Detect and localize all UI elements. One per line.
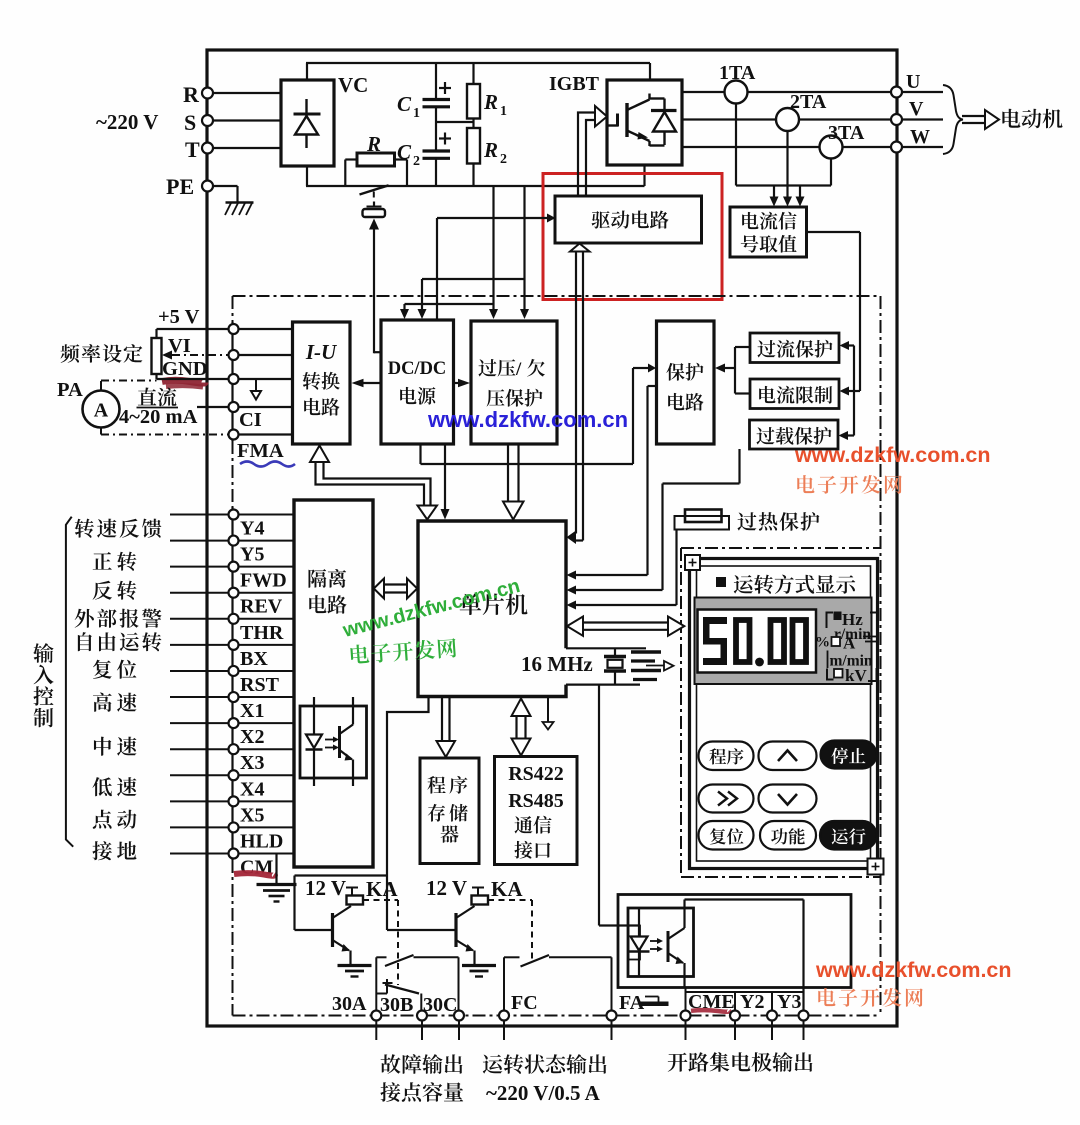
blue wavy mark under FMA — [240, 462, 295, 467]
svg-text:PE: PE — [166, 174, 194, 199]
terminal REV circle — [229, 588, 239, 598]
wire positive DC bus rail — [306, 62, 650, 64]
node S input terminal line — [212, 119, 281, 121]
block over/under voltage protection 过压/欠压保护 — [471, 321, 557, 444]
LED of output opto — [638, 909, 640, 937]
terminal 30A circle — [371, 1011, 381, 1021]
svg-text:www.dzkfw.com.cn: www.dzkfw.com.cn — [427, 407, 628, 432]
ground arrow symbol below GND line — [255, 379, 257, 391]
svg-text:~220 V: ~220 V — [96, 110, 158, 134]
terminal S circle — [202, 115, 213, 126]
terminal open collector 4th circle — [799, 1011, 809, 1021]
label 复位 — [93, 660, 112, 679]
block overload protection 过载保护 — [750, 420, 839, 449]
node PE terminal line — [213, 185, 238, 187]
brace grouping U V W outputs — [943, 85, 963, 154]
terminal T circle — [202, 143, 213, 154]
button 程序 — [699, 742, 754, 771]
block overcurrent protection 过流保护 — [750, 333, 839, 363]
phototransistor of output opto — [667, 931, 670, 962]
arrow into drive circuit left — [547, 214, 556, 223]
wire 4th lead out — [803, 1021, 805, 1041]
block isolation circuit 隔离电路 — [294, 500, 373, 867]
terminal HLD circle — [229, 822, 239, 832]
button up arrow — [759, 742, 817, 771]
wire 30C lead out — [458, 1021, 460, 1041]
svg-text:GND: GND — [162, 358, 208, 380]
arrow into over/under voltage box A — [489, 309, 498, 319]
arrow small right from crystal caps — [646, 665, 664, 667]
terminal W circle on border — [891, 142, 902, 153]
wire rail branch B to protection supplies — [523, 186, 525, 310]
arrow into overload protection right — [848, 434, 854, 436]
wire dash-dot control boundary top — [233, 295, 881, 297]
arrow into overcurrent protection right — [849, 344, 854, 346]
svg-text:X5: X5 — [240, 804, 264, 826]
svg-text:Y4: Y4 — [240, 518, 264, 540]
svg-text:CI: CI — [239, 409, 262, 431]
wire U output line — [682, 91, 943, 93]
svg-text:RST: RST — [240, 674, 280, 696]
red mark under GND — [162, 380, 205, 383]
svg-text:2TA: 2TA — [790, 91, 827, 113]
wire C2 bottom to negative rail — [435, 159, 437, 187]
display 50.00 seven segment readout — [703, 617, 727, 624]
wire braking resistor right lead — [395, 158, 408, 160]
arrow stub down from MCU bottom — [547, 697, 549, 723]
arrow open over/under-voltage to MCU — [507, 444, 509, 502]
watermark green rotated 电子开发网 — [350, 638, 457, 665]
arrow into current sampling box middle — [783, 197, 792, 207]
svg-text:R: R — [183, 82, 200, 107]
svg-text:V: V — [909, 98, 924, 120]
display gray area — [695, 598, 872, 685]
capacitor chopper gate element — [367, 206, 382, 208]
arrow solid up into chopper — [369, 219, 379, 230]
terminal Y3 circle — [767, 1011, 777, 1021]
wire dash-dot control boundary left — [232, 296, 234, 322]
crystal X1 16MHz — [614, 648, 616, 656]
node REV input terminal line — [170, 592, 294, 594]
wire protection circuit output down to MCU — [648, 385, 657, 387]
svg-text:KA: KA — [491, 877, 523, 901]
wire opto collector to output terminal — [683, 900, 685, 909]
highlight red box around drive circuit — [543, 174, 722, 300]
watermark orange bottom 电子开发网 — [818, 988, 835, 1006]
label 反转 — [93, 581, 112, 600]
svg-text:30A: 30A — [332, 993, 367, 1015]
wire TA junction rail — [736, 184, 831, 186]
wire Y2 lead — [734, 992, 736, 1011]
power tick 12V relay1 — [346, 887, 358, 889]
terminal VI circle — [229, 350, 239, 360]
wire R1 to R2 — [472, 119, 474, 129]
wire braking resistor left lead — [345, 158, 357, 160]
svg-text:+5 V: +5 V — [158, 306, 200, 328]
svg-text:RS485: RS485 — [508, 790, 564, 812]
wire negative DC bus rail — [306, 185, 645, 187]
wire DC/DC to MCU solid arrow — [444, 444, 446, 510]
button 运行 run — [820, 821, 877, 850]
node HLD input terminal line — [170, 826, 294, 828]
terminal FWD circle — [229, 562, 239, 572]
block drive circuit 驱动电路 — [555, 196, 702, 243]
arrow into MCU right edge middle — [567, 586, 577, 595]
svg-text:Y5: Y5 — [240, 544, 264, 566]
arrow into protection circuit left — [648, 364, 656, 373]
node Y4 input terminal line — [170, 514, 294, 516]
arrow potentiometer wiper — [172, 354, 228, 356]
wire MCU to relay driver bases — [387, 697, 429, 931]
label 转速反馈 — [75, 519, 94, 538]
label 开路集电极输出 — [668, 1053, 688, 1072]
block protection circuit 保护电路 — [657, 321, 715, 444]
terminal FC circle — [499, 1011, 509, 1021]
node Y5 input terminal line — [170, 540, 294, 542]
wire Y2 lead out — [734, 1021, 736, 1041]
corner screw top-left — [685, 555, 700, 570]
svg-text:2: 2 — [413, 154, 420, 169]
label 高速 — [93, 693, 112, 712]
svg-text:VC: VC — [338, 73, 368, 97]
wire C1 bottom to midpoint — [435, 107, 437, 122]
wire terminal column line lower — [231, 507, 233, 860]
node THR input terminal line — [170, 618, 294, 620]
terminal U circle on border — [891, 87, 902, 98]
wire chopper drive line from DC/DC — [373, 229, 375, 353]
diode freewheel inside IGBT — [663, 99, 665, 146]
svg-text:A: A — [94, 400, 109, 422]
ground Q2 emitter — [462, 964, 496, 967]
svg-text:REV: REV — [240, 596, 283, 618]
optocoupler U3 open collector output — [628, 908, 694, 977]
svg-text:X4: X4 — [240, 778, 264, 800]
ground symbol below CM — [275, 853, 277, 885]
terminal RST circle — [229, 666, 239, 676]
svg-text:30B: 30B — [380, 994, 413, 1016]
arrow into MCU right edge top — [567, 571, 577, 580]
svg-text:www.dzkfw.com.cn: www.dzkfw.com.cn — [794, 443, 991, 467]
wire Y3 lead — [771, 992, 773, 1011]
label + of C1 — [439, 87, 451, 89]
terminal 30B circle — [417, 1011, 427, 1021]
svg-text:W: W — [910, 126, 930, 148]
capacitor C1 — [423, 98, 451, 101]
display LCD window — [698, 610, 817, 673]
button 停止 stop — [821, 741, 877, 769]
block MCU 单片机 microcontroller — [418, 521, 566, 697]
capacitor C2 — [423, 149, 451, 152]
terminal CME circle — [681, 1011, 691, 1021]
wire dash-dot control boundary bottom terminal line — [233, 1015, 881, 1017]
svg-text:IGBT: IGBT — [549, 73, 600, 95]
arrow double-headed MCU to display panel — [582, 621, 669, 623]
label 中速 — [94, 737, 111, 756]
block DC/DC power supply — [381, 320, 454, 444]
wire Q2 emitter to ground — [473, 951, 475, 966]
terminal Y4 circle — [229, 510, 239, 520]
wire Y3 lead out — [771, 1021, 773, 1041]
terminal X3 circle — [229, 744, 239, 754]
node X4 input terminal line — [170, 774, 294, 776]
wire VI to I-U — [239, 354, 293, 356]
wire MCU line to output opto — [598, 685, 600, 926]
terminal X4 circle — [229, 770, 239, 780]
arrow double-headed isolation to MCU — [384, 583, 407, 585]
button fast-forward — [699, 785, 754, 813]
ground mark near CME — [645, 996, 659, 998]
transformer 3TA current sensor circle — [820, 136, 843, 159]
arrow DC/DC to over/under voltage — [453, 382, 459, 384]
svg-text:T: T — [185, 137, 200, 162]
power tick 12V relay2 — [472, 887, 484, 889]
wire stub left arrow drop — [773, 186, 775, 197]
svg-text:KA: KA — [366, 877, 398, 901]
wire chopper stub to gate element — [373, 202, 375, 208]
arrow into current sampling box left — [770, 197, 779, 207]
svg-text:FWD: FWD — [240, 570, 287, 592]
label 运转状态输出 — [483, 1055, 503, 1074]
label 自由运转 — [78, 632, 92, 651]
wire output terminal header line — [686, 991, 804, 993]
potentiometer frequency set — [152, 338, 162, 374]
arrow into DC/DC box B — [418, 309, 427, 319]
wire 2TA drop — [786, 131, 788, 197]
wire stub right arrow drop — [799, 186, 801, 197]
ground Q1 emitter — [338, 964, 372, 967]
wire branch overcurrent to overload — [853, 346, 855, 436]
node T input terminal line — [212, 147, 281, 149]
display units legend — [827, 613, 834, 629]
svg-text:BX: BX — [240, 648, 268, 670]
svg-text:/: / — [515, 359, 522, 380]
button down arrow — [759, 785, 817, 813]
svg-text:30C: 30C — [423, 994, 457, 1016]
red mark under CME — [691, 1010, 729, 1012]
block I-U converter 转换电路 — [293, 322, 351, 444]
block program memory 程序存储器 — [420, 758, 479, 864]
arrow DC/DC to I-U converter — [364, 382, 382, 384]
arrow into over/under voltage box B — [520, 309, 529, 319]
svg-text:X3: X3 — [240, 752, 264, 774]
svg-text:~220 V/0.5 A: ~220 V/0.5 A — [486, 1081, 601, 1105]
optocoupler inside isolation circuit — [300, 706, 367, 778]
wire 30B lead out — [421, 1021, 423, 1041]
resistor R braking — [357, 153, 395, 166]
wire relay2 base lead — [387, 929, 456, 931]
svg-text:THR: THR — [240, 622, 284, 644]
wire R2 bottom to negative rail — [472, 164, 474, 187]
resistor R2 — [467, 128, 480, 164]
watermark green rotated www.dzkfw.com.cn — [340, 575, 523, 642]
wire dashed KA1 link to contacts — [363, 899, 398, 901]
wire CI line — [197, 406, 293, 408]
node RST input terminal line — [170, 670, 294, 672]
label 正转 — [93, 552, 112, 570]
button 复位 reset — [699, 821, 754, 850]
terminal 30C circle — [454, 1011, 464, 1021]
switch contact FC-FA — [503, 957, 505, 1011]
svg-text:Y3: Y3 — [777, 991, 801, 1013]
wire VC bottom to negative rail — [306, 166, 308, 186]
label + of C2 — [439, 137, 451, 139]
wire MCU crystal top rail — [566, 647, 646, 649]
wire midpoint C to R branch — [436, 121, 474, 123]
wire overload protection output to MCU — [738, 449, 740, 484]
capacitor load caps of crystal — [631, 650, 661, 653]
svg-text:I-U: I-U — [305, 340, 338, 364]
wire V output line — [682, 118, 943, 120]
terminal CI circle — [229, 402, 239, 412]
wire FA lead out — [611, 1021, 613, 1041]
svg-text:16 MHz: 16 MHz — [521, 652, 593, 676]
wire MCU crystal bottom rail — [566, 683, 640, 685]
svg-text:12 V: 12 V — [305, 876, 346, 900]
terminal Y5 circle — [229, 536, 239, 546]
transformer 1TA current sensor circle — [725, 81, 748, 104]
transistor Q1 relay driver — [331, 913, 334, 947]
svg-text:R: R — [483, 90, 498, 114]
svg-text:DC/DC: DC/DC — [388, 359, 447, 379]
terminal FA circle — [607, 1011, 617, 1021]
wire branch A tee to DC/DC — [405, 303, 494, 305]
wire FC lead out — [503, 1021, 505, 1041]
arrow into DC/DC box A — [400, 309, 409, 319]
svg-text:3TA: 3TA — [828, 122, 865, 144]
svg-text:1: 1 — [500, 104, 507, 119]
label 低速 — [92, 777, 111, 796]
svg-text:R: R — [483, 138, 498, 162]
arrow into current sampling box right — [796, 197, 805, 207]
wire midpoint to C2 — [435, 122, 437, 151]
wire PA top lead dash-dot to GND line — [100, 381, 102, 391]
terminal BX circle — [229, 640, 239, 650]
svg-text:A: A — [843, 634, 856, 653]
wire IGBT bottom to negative rail — [643, 165, 645, 186]
block RS422 RS485 communication interface — [495, 757, 578, 865]
wire Q1 emitter to ground — [349, 951, 351, 966]
transistor IGBT module box — [607, 80, 682, 165]
wire branch B tee to DC/DC — [422, 278, 525, 280]
wire FMA line to I-U — [239, 433, 293, 435]
wire DC/DC bottom to protection circuit left — [419, 444, 421, 464]
terminal FMA circle — [229, 430, 239, 440]
wire DC/DC supply to drive circuit — [437, 217, 548, 219]
wire outer enclosure border of inverter — [207, 50, 897, 1026]
svg-text:R: R — [366, 132, 381, 156]
wire dash-dot control boundary right — [880, 296, 882, 1016]
diode symbol inside VC — [305, 99, 307, 148]
block current limit 电流限制 — [750, 379, 839, 409]
switch chopper blade below rail — [360, 185, 389, 194]
terminal THR circle — [229, 614, 239, 624]
arrow tie into protection circuit right — [725, 367, 735, 369]
node BX input terminal line — [170, 644, 294, 646]
corner screw bottom-right — [868, 859, 884, 875]
ammeter PA — [83, 391, 120, 428]
transistor Q2 relay driver — [454, 913, 457, 947]
terminal Y2 circle — [730, 1011, 740, 1021]
wire current sample output — [807, 231, 861, 233]
label 频率设定 — [61, 344, 80, 363]
label 接地 — [92, 841, 111, 860]
arrow double-line MCU to drive circuit — [575, 252, 577, 534]
IGBT internal symbol — [607, 124, 618, 126]
arrow solid into MCU right edge from drive line — [567, 531, 577, 545]
terminal X5 circle — [229, 796, 239, 806]
wire thermal switch to MCU — [675, 530, 677, 606]
watermark orange middle 电子开发网 — [797, 475, 814, 493]
wire bus into IGBT top — [649, 63, 651, 80]
terminal X1 circle — [229, 692, 239, 702]
label 外部报警 — [75, 609, 94, 628]
wire dashed KA2 link to contact — [488, 899, 532, 901]
node CM input terminal line — [170, 853, 294, 855]
arrow double-line bent I-U to MCU both heads — [316, 462, 425, 506]
block operator display panel frame — [690, 559, 878, 869]
light arrows of output opto — [650, 940, 657, 942]
node R input terminal line — [212, 92, 281, 94]
terminal +5V circle — [229, 324, 239, 334]
node FWD input terminal line — [170, 566, 294, 568]
node X5 input terminal line — [170, 800, 294, 802]
svg-text:X2: X2 — [240, 726, 264, 748]
svg-text:RS422: RS422 — [508, 763, 564, 785]
label 直流 with underline — [138, 387, 157, 405]
label 过热保护 — [737, 512, 756, 530]
svg-text:1: 1 — [413, 106, 420, 121]
svg-text:1TA: 1TA — [719, 62, 756, 84]
svg-text:4~20 mA: 4~20 mA — [119, 406, 198, 428]
wire dash-dot display panel enclosure — [681, 547, 881, 549]
wire open collector output enclosure box — [618, 895, 851, 988]
terminal CM circle — [229, 849, 239, 859]
wire PA bottom lead dash-dot to FMA line — [100, 428, 102, 435]
switch contact 30A-30B-30C changeover — [375, 957, 377, 1011]
wire CME emitter lead — [685, 988, 687, 1012]
wire rail branch A to protection supplies — [492, 186, 494, 310]
wire bus tap to R1 — [472, 63, 474, 84]
wire +5V line to I-U and potentiometer — [157, 328, 293, 330]
svg-text:PA: PA — [57, 379, 83, 401]
svg-text:U: U — [906, 71, 920, 93]
arrow into current limit right — [849, 390, 860, 392]
wire 30A lead out — [375, 1021, 377, 1041]
svg-text:C: C — [397, 140, 412, 164]
red mark under CM — [234, 873, 275, 876]
arrow double-line to motor — [962, 115, 985, 117]
terminal PE circle — [202, 181, 213, 192]
bracket input group — [66, 517, 73, 847]
label motor 电动机 — [1002, 109, 1020, 128]
label 故障输出 — [381, 1054, 401, 1074]
svg-text:HLD: HLD — [240, 830, 283, 852]
wire W output line — [682, 146, 943, 148]
wire relay1 base lead — [295, 929, 333, 931]
wire CME lead out — [685, 1021, 687, 1041]
node X2 input terminal line — [170, 722, 294, 724]
wire VC top to DC bus — [306, 63, 308, 80]
button 功能 function — [760, 821, 816, 850]
label 接点容量 — [380, 1082, 400, 1102]
label 输入控制 vertical — [33, 643, 53, 663]
label ■运转方式显示 panel title — [716, 577, 726, 587]
svg-text:FC: FC — [511, 992, 538, 1014]
svg-text:www.dzkfw.com.cn: www.dzkfw.com.cn — [815, 958, 1012, 982]
svg-text:S: S — [184, 110, 196, 135]
node X3 input terminal line — [170, 748, 294, 750]
wire 3TA drop — [830, 159, 832, 186]
